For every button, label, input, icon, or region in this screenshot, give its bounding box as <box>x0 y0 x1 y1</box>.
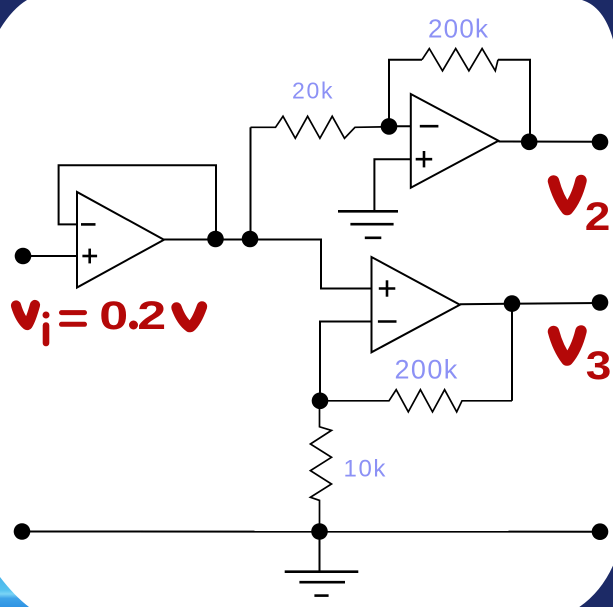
node C <box>312 393 329 410</box>
wire <box>511 304 513 401</box>
label V2 <box>554 181 611 240</box>
svg-text:20k: 20k <box>292 78 334 104</box>
wire <box>22 531 600 533</box>
svg-text:10k: 10k <box>344 455 388 482</box>
label Vi = 0.2V <box>16 293 202 343</box>
resistor R3 200k <box>320 390 512 412</box>
wire <box>250 240 372 289</box>
wire <box>320 322 372 401</box>
wire <box>498 60 530 142</box>
wire <box>164 239 250 241</box>
ground <box>285 532 359 596</box>
terminal V2 <box>592 134 609 151</box>
svg-text:200k: 200k <box>395 355 459 385</box>
svg-text:0: 0 <box>99 293 128 338</box>
terminal <box>592 523 609 540</box>
node <box>521 134 538 151</box>
svg-text:2: 2 <box>585 195 611 240</box>
node B <box>381 118 398 135</box>
resistor R1 20k <box>251 116 390 138</box>
node A <box>242 231 259 248</box>
node <box>504 295 521 312</box>
wire <box>23 255 77 257</box>
input terminal Vi <box>15 248 32 265</box>
op-amp U1 <box>77 192 164 288</box>
op-amp U3 <box>372 257 460 352</box>
wire <box>250 127 252 239</box>
wire <box>59 165 216 239</box>
svg-text:200k: 200k <box>428 14 489 44</box>
terminal <box>14 523 31 540</box>
resistor R4 10k <box>310 401 331 532</box>
node <box>207 231 224 248</box>
terminal V3 <box>592 294 609 311</box>
wire <box>389 60 422 127</box>
resistor R2 200k <box>422 49 498 71</box>
node D <box>311 523 328 540</box>
svg-text:2: 2 <box>137 293 166 338</box>
label V3 <box>554 331 612 388</box>
op-amp U2 <box>411 94 499 188</box>
wire <box>499 141 601 143</box>
wire <box>389 125 411 127</box>
ground <box>338 211 398 238</box>
svg-text:3: 3 <box>586 344 612 389</box>
wire <box>374 159 410 211</box>
wire <box>460 303 600 304</box>
